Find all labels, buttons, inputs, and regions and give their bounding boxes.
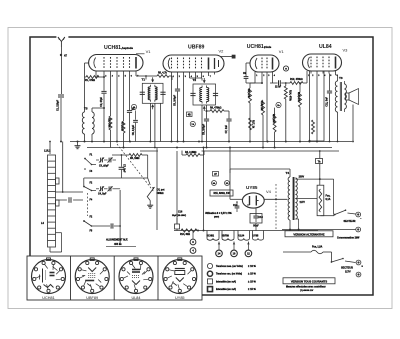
wire T4 bottom tap <box>295 219 299 231</box>
capacitor C5 <box>175 89 181 141</box>
svg-text:UL84: UL84 <box>319 44 332 50</box>
ballast resistor 0.1A <box>317 179 331 216</box>
svg-text:UL84: UL84 <box>239 234 245 237</box>
resistor R17 2k <box>249 118 254 130</box>
wire T4 tap 230V <box>295 177 333 215</box>
svg-text:± 15 %: ± 15 % <box>248 273 257 276</box>
node 12 <box>245 242 252 257</box>
svg-text:C6, 0,1µF: C6, 0,1µF <box>133 124 135 135</box>
node 8 <box>190 231 196 245</box>
svg-text:C3, ±5pF: C3, ±5pF <box>99 166 109 168</box>
svg-text:1: 1 <box>256 75 257 77</box>
svg-text:Tensions mes. (en Volts): Tensions mes. (en Volts) <box>216 265 243 268</box>
node 1D <box>225 181 230 186</box>
tube V3a UCH81 triode <box>247 44 285 72</box>
fuse 1.5A <box>283 245 332 262</box>
svg-text:C2, 47pF: C2, 47pF <box>100 96 103 106</box>
svg-text:Fus, 1,5A: Fus, 1,5A <box>312 245 323 248</box>
ground T5 <box>75 141 81 149</box>
wire T1 out down <box>149 103 151 142</box>
wire grid V1 down <box>84 77 86 112</box>
wire V1 pin6 down <box>129 74 131 110</box>
terminal secteur DC <box>341 260 364 273</box>
svg-text:V1: V1 <box>146 49 152 54</box>
thermistor Th <box>316 150 323 179</box>
svg-text:R9, 47k: R9, 47k <box>247 89 250 98</box>
legend row 1 <box>207 263 256 268</box>
capacitor C13 50nF box <box>250 208 263 230</box>
switch F1 <box>84 155 96 166</box>
svg-text:R5, 4.7k: R5, 4.7k <box>158 71 168 74</box>
svg-text:C14: C14 <box>233 204 238 207</box>
svg-text:4B: 4B <box>188 114 191 117</box>
wire coil tap 1 <box>56 191 84 193</box>
wire V1 pins <box>96 71 136 77</box>
wire L4 bottom <box>50 248 62 253</box>
boxed label 27 <box>213 172 219 177</box>
wire V3a pin mid <box>266 74 268 142</box>
svg-text:R2, 470k: R2, 470k <box>108 118 111 128</box>
svg-text:UCH81: UCH81 <box>207 235 215 237</box>
svg-text:VERSION TOUS COURANTS: VERSION TOUS COURANTS <box>291 279 327 283</box>
svg-text:Intensités (en mA): Intensités (en mA) <box>216 288 236 291</box>
wire UY85 top <box>230 169 290 177</box>
resistor R4 2.2M <box>182 151 204 157</box>
legend row 2 <box>207 271 256 276</box>
wire V1 pin5 down <box>123 74 125 121</box>
wire osc drop A <box>62 142 64 193</box>
wire V1 grid lead <box>85 63 89 77</box>
svg-text:R14, 470k: R14, 470k <box>289 90 292 101</box>
svg-text:455 kc: 455 kc <box>114 243 122 246</box>
svg-text:VERSION ALTERNATIVE: VERSION ALTERNATIVE <box>293 232 324 236</box>
svg-text:± 15 %: ± 15 % <box>248 280 257 283</box>
wire heater bus <box>174 230 318 232</box>
svg-text:± 10 %: ± 10 % <box>248 265 257 268</box>
wire L4 top <box>49 141 51 154</box>
switch F4 <box>83 183 96 202</box>
trimmer C T1 <box>96 157 116 167</box>
resistor R11 22k <box>260 74 264 148</box>
page border (scan edge) <box>8 28 392 309</box>
svg-text:± 15 %: ± 15 % <box>248 288 257 291</box>
svg-text:5: 5 <box>125 75 126 77</box>
svg-text:C11, 5nF: C11, 5nF <box>327 96 329 106</box>
svg-text:Tensions osc. (en Volts): Tensions osc. (en Volts) <box>216 273 242 276</box>
svg-text:R4, 2.2MΩ: R4, 2.2MΩ <box>185 151 196 154</box>
svg-text:R16, 47k: R16, 47k <box>297 92 300 102</box>
svg-text:Utilisation 6 × 1,5V ± 5%: Utilisation 6 × 1,5V ± 5% <box>205 212 233 215</box>
svg-text:T4: T4 <box>286 171 290 175</box>
svg-text:22 nF: 22 nF <box>275 87 282 89</box>
svg-text:Consommation 29W: Consommation 29W <box>337 237 360 240</box>
svg-text:UCH81,: UCH81, <box>104 45 123 51</box>
wire antenna down <box>60 47 62 94</box>
svg-text:6: 6 <box>203 76 204 78</box>
trimmer C F4 <box>96 186 120 195</box>
resistor R10 47k <box>247 83 262 142</box>
svg-text:230V: 230V <box>299 177 305 179</box>
inductor L1 L2 <box>41 150 59 248</box>
svg-text:R11, 1M: R11, 1M <box>272 114 274 123</box>
wire V2 pin6 down <box>196 75 202 81</box>
wire V2 pin1 to bus <box>171 75 173 142</box>
capacitor C6 100pF <box>204 119 209 147</box>
heater UY85 <box>253 231 264 241</box>
svg-text:R8, 470kΩ: R8, 470kΩ <box>210 107 221 110</box>
svg-text:3: 3 <box>268 75 269 77</box>
wire V1 pin3 down <box>110 74 112 116</box>
wire coil tap 2 with capacitor <box>56 197 84 203</box>
resistor R8 470k <box>206 107 230 113</box>
wire T4 tap 117V <box>295 199 317 205</box>
svg-text:4A: 4A <box>133 106 136 109</box>
capacitor C14 <box>233 201 243 212</box>
wire C2 to bus <box>103 94 105 142</box>
node 14 <box>216 242 223 257</box>
svg-text:heptode: heptode <box>122 46 133 50</box>
svg-text:UL84: UL84 <box>131 296 140 300</box>
resistor R5 4.7k <box>145 71 172 80</box>
potentiometer CV 500k <box>147 178 165 197</box>
svg-text:UBF89: UBF89 <box>222 235 230 237</box>
svg-text:7A: 7A <box>191 123 194 126</box>
svg-text:5: 5 <box>330 75 331 77</box>
svg-text:ALIGNEMENT M.F.: ALIGNEMENT M.F. <box>106 239 128 242</box>
svg-text:UCH81,: UCH81, <box>247 44 266 50</box>
wire bus lower <box>140 150 339 152</box>
node 7A <box>190 121 195 126</box>
wire V2 pins <box>172 72 215 75</box>
svg-text:117V: 117V <box>300 202 306 204</box>
terminal secteur AC <box>344 212 363 223</box>
svg-text:9A: 9A <box>213 182 216 185</box>
capacitor C6 0.1uF <box>133 111 138 142</box>
svg-text:SECTEUR: SECTEUR <box>344 220 356 223</box>
capacitor C1 220pF <box>58 95 65 111</box>
node 10 <box>231 242 238 257</box>
wire V1 pin4 to bus <box>116 74 118 143</box>
svg-text:6: 6 <box>131 75 132 77</box>
resistor R14 82ohm <box>180 229 199 236</box>
svg-text:R14, 82Ω: R14, 82Ω <box>180 233 190 236</box>
svg-text:C7, 5nF: C7, 5nF <box>123 164 125 173</box>
text alignement <box>106 239 136 247</box>
tube V4 UY85 <box>242 185 271 208</box>
svg-text:Intensités (en mA): Intensités (en mA) <box>216 280 236 283</box>
svg-text:SECTEUR: SECTEUR <box>341 266 353 269</box>
svg-text:R17, 2k: R17, 2k <box>252 120 254 129</box>
capacitor C pad2 <box>111 223 113 228</box>
svg-text:2: 2 <box>105 75 106 77</box>
wire V2 pin7 to bus <box>208 75 210 77</box>
wire bus HT <box>87 147 332 149</box>
tube V1 UCH81 heptode <box>89 45 152 71</box>
svg-text:V1: V1 <box>279 49 285 54</box>
wire V3 pins <box>307 71 336 74</box>
heater UBF89 <box>222 231 235 241</box>
switch F5 <box>83 217 93 233</box>
socket UBF89 <box>75 258 109 300</box>
dashed gang line <box>88 144 155 216</box>
heater UL84 <box>238 231 250 241</box>
svg-text:R10, 22k: R10, 22k <box>260 101 262 111</box>
resistor R3 1M <box>112 154 148 179</box>
capacitor C8 50pF <box>243 63 255 83</box>
wire UY85 right <box>264 198 287 200</box>
heater UCH81 <box>207 231 220 241</box>
version tous courants box <box>283 278 335 284</box>
terminal secteur AC 2 <box>282 227 361 232</box>
svg-text:C8, 100pF: C8, 100pF <box>204 123 206 135</box>
wire T2 down left <box>201 105 203 143</box>
resistor R2 470k <box>108 116 112 130</box>
node 4 <box>190 248 196 254</box>
svg-text:1D: 1D <box>226 183 229 185</box>
wire coupling <box>270 74 278 83</box>
boxed node 4B <box>187 112 193 117</box>
svg-text:(?) 40000 Ω/V: (?) 40000 Ω/V <box>300 289 314 292</box>
svg-text:117V: 117V <box>345 270 351 273</box>
capacitor C osc <box>119 154 125 178</box>
transformer T5 <box>82 107 104 143</box>
svg-text:3: 3 <box>112 75 113 77</box>
svg-text:C16: C16 <box>178 212 183 214</box>
node H <box>283 66 288 71</box>
wire R2 to bus <box>110 130 112 148</box>
svg-text:C5, 100pF: C5, 100pF <box>175 94 177 106</box>
ground pot <box>147 197 153 208</box>
svg-text:5: 5 <box>197 76 198 78</box>
svg-text:3: 3 <box>185 76 186 78</box>
svg-text:C7, 1nF: C7, 1nF <box>226 124 228 133</box>
legend row 3 <box>208 279 257 284</box>
wire antenna to bus <box>60 98 62 142</box>
wire T2 down right <box>206 105 208 111</box>
resistor R pot <box>272 108 276 148</box>
svg-text:UCH81: UCH81 <box>42 296 54 300</box>
svg-text:7: 7 <box>210 76 211 78</box>
transformer T2 <box>190 78 218 111</box>
wire R7 to bus <box>123 133 125 148</box>
svg-text:T1: T1 <box>142 78 146 82</box>
wire V1 pin2 down <box>103 74 105 91</box>
wire V2 pin2 down <box>177 75 179 89</box>
text consommation <box>337 237 360 240</box>
svg-text:C13: C13 <box>259 217 264 219</box>
resistor R7 1k <box>121 121 125 133</box>
wire V3a grid down <box>261 74 263 84</box>
wire AVC feed box <box>84 178 148 187</box>
speaker <box>344 89 358 105</box>
svg-text:R12, 470kΩ: R12, 470kΩ <box>290 78 303 81</box>
wire V2 anode to screen cap <box>220 55 235 58</box>
wire speaker return <box>309 105 354 143</box>
wire C7 branch <box>226 111 231 142</box>
schematic frame <box>30 37 373 295</box>
svg-text:2: 2 <box>263 75 264 77</box>
terminal secteur DC 2 <box>283 272 361 277</box>
svg-text:Fus,: Fus, <box>326 196 331 198</box>
tube V3 UL84 <box>303 44 349 71</box>
wire T1 out2 down <box>154 103 156 148</box>
svg-text:V2: V2 <box>219 49 225 54</box>
pin numbers <box>97 74 338 78</box>
svg-text:500kΩ: 500kΩ <box>157 193 164 195</box>
switch secteur AC <box>334 209 356 215</box>
svg-text:R7, 1kΩ: R7, 1kΩ <box>121 122 123 131</box>
svg-text:3: 3 <box>318 75 319 77</box>
svg-text:UBF89: UBF89 <box>86 296 98 300</box>
svg-text:T3: T3 <box>339 76 343 80</box>
svg-text:1: 1 <box>173 76 174 78</box>
capacitor C2 47pF <box>100 91 107 106</box>
svg-text:R3, 1MΩ: R3, 1MΩ <box>130 158 140 160</box>
socket UCH81 <box>32 258 66 300</box>
socket UL84 <box>119 258 153 300</box>
wire coil tap 3 <box>56 233 62 252</box>
transformer T1 <box>140 77 166 109</box>
svg-text:V3: V3 <box>343 48 349 53</box>
wire ballast to switch <box>320 215 334 216</box>
resistor R12 470k <box>290 74 307 85</box>
switch secteur DC <box>331 258 356 263</box>
svg-text:2: 2 <box>179 76 180 78</box>
svg-text:C1, 220pF: C1, 220pF <box>58 99 60 111</box>
svg-text:UY85: UY85 <box>246 185 258 190</box>
text mesures <box>286 285 326 292</box>
node 1b <box>276 102 281 107</box>
antenna <box>58 37 65 47</box>
svg-text:R15, 820Ω, 1W: R15, 820Ω, 1W <box>213 193 230 195</box>
capacitor C3 56pF <box>127 109 135 142</box>
resistor R13 470k <box>284 82 291 141</box>
svg-text:UY85: UY85 <box>253 235 259 237</box>
wire T1 right down <box>160 103 162 141</box>
wire mid vertical <box>176 151 178 224</box>
wire V3a pins <box>255 72 273 74</box>
svg-text:UBF89: UBF89 <box>188 45 205 51</box>
wire V3 anode to T3 <box>336 74 338 82</box>
svg-text:R1, 47kΩ: R1, 47kΩ <box>85 79 95 82</box>
wire bus AVC <box>70 141 352 143</box>
boxed R15 820 <box>210 190 233 196</box>
svg-text:C4, 5pF: C4, 5pF <box>98 193 107 196</box>
node antenna junction <box>60 54 68 58</box>
transformer T4 <box>286 171 298 231</box>
capacitor C11 5nF <box>327 74 332 143</box>
svg-text:2: 2 <box>312 75 313 77</box>
wire V3 screen <box>316 74 318 142</box>
svg-text:CV, pot: CV, pot <box>157 189 165 192</box>
junction dots bus <box>60 141 318 149</box>
svg-text:UY85: UY85 <box>175 296 185 300</box>
switch F3 <box>84 168 93 173</box>
socket panel box <box>27 256 202 300</box>
capacitor C16 electro <box>157 148 186 231</box>
resistor R16 47k <box>297 82 301 142</box>
version alternative box <box>285 231 333 237</box>
wire V3 cathode loop <box>309 71 325 142</box>
svg-text:25µF (25-150V): 25µF (25-150V) <box>172 215 186 217</box>
svg-text:triode: triode <box>264 45 272 49</box>
svg-text:V4: V4 <box>266 189 272 194</box>
wire R8 junction down <box>206 111 208 119</box>
node 9A <box>212 181 217 186</box>
wire UY85 left <box>229 147 243 200</box>
wire V2 pin3 to bus <box>183 75 185 143</box>
svg-text:T5: T5 <box>84 107 88 111</box>
text utilisation <box>205 212 233 219</box>
node 4A <box>131 104 136 109</box>
wire anode V1 to T1 <box>136 74 146 80</box>
resistor R1 47k <box>85 76 106 83</box>
socket UY85 <box>163 258 197 300</box>
svg-text:0,1A: 0,1A <box>326 198 331 201</box>
legend row 4 <box>208 287 257 292</box>
tube V2 UBF89 <box>163 45 224 73</box>
svg-text:(90V): (90V) <box>214 217 219 219</box>
wire chassis dashed <box>275 184 277 229</box>
wire heater drop <box>203 147 205 232</box>
transformer T3 <box>335 76 346 142</box>
wire V2 pin4 to T2 <box>190 75 203 81</box>
svg-text:Mesures effectuées avec contrô: Mesures effectuées avec contrôleur <box>286 285 326 288</box>
resistor R cath <box>312 74 315 135</box>
wire osc out <box>92 190 122 245</box>
capacitor C10 22nF <box>275 80 290 88</box>
